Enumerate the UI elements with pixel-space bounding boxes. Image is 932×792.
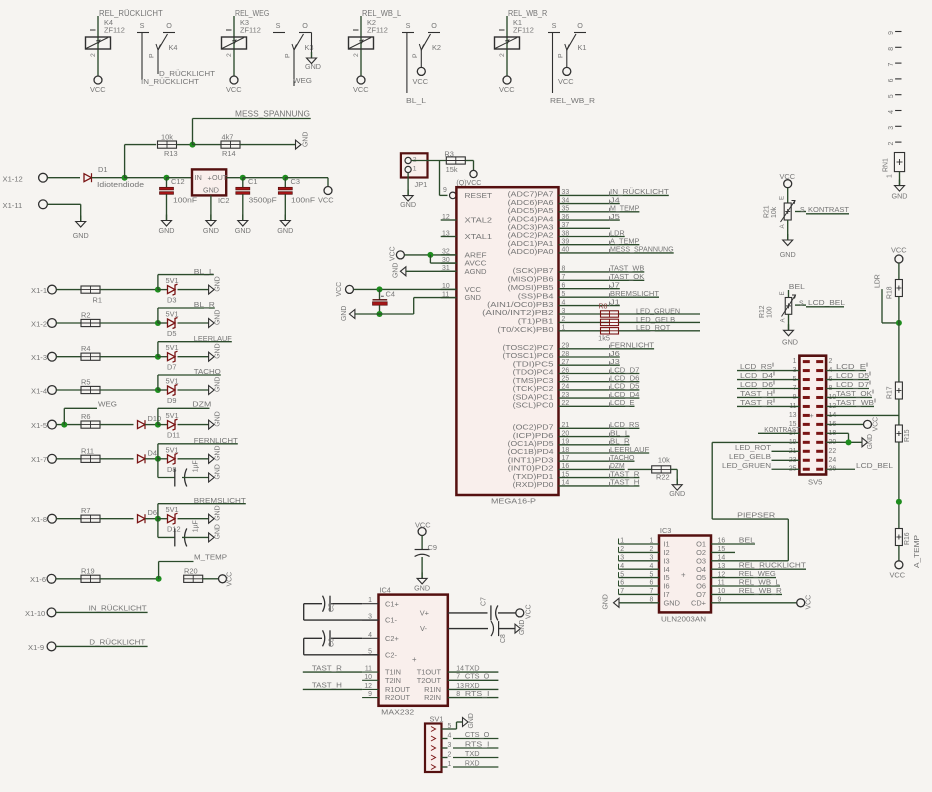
junction MESS tap [190, 142, 196, 148]
diode D1 Idiotendiode [84, 174, 92, 182]
svg-text:VCC: VCC [318, 196, 334, 205]
svg-text:GND: GND [203, 186, 219, 195]
svg-text:100nF: 100nF [291, 196, 316, 205]
ground C8 [515, 624, 521, 633]
svg-text:R4: R4 [81, 344, 90, 353]
svg-text:23: 23 [562, 392, 570, 399]
svg-text:X1-10: X1-10 [25, 609, 45, 618]
svg-text:R15: R15 [904, 429, 911, 442]
svg-text:GND: GND [203, 226, 219, 235]
uln2003 input wires [619, 543, 660, 545]
svg-text:O: O [577, 21, 583, 30]
svg-text:R17: R17 [887, 386, 894, 399]
svg-text:29: 29 [562, 343, 570, 350]
svg-text:1: 1 [650, 538, 654, 545]
svg-text:RTS_I: RTS_I [465, 689, 490, 698]
svg-text:BL_R: BL_R [194, 300, 216, 309]
supply VCC CD+ [797, 599, 805, 607]
svg-text:ZF112: ZF112 [240, 26, 261, 35]
svg-text:20: 20 [562, 430, 570, 437]
svg-text:GND: GND [277, 226, 293, 235]
relay K4 contact switch [137, 32, 149, 34]
ground AGND [400, 267, 406, 276]
net TAST_H to max232 [303, 688, 362, 690]
svg-text:D3: D3 [167, 296, 176, 305]
resistor R14 4k7 [193, 144, 222, 146]
svg-text:40: 40 [562, 247, 570, 254]
svg-text:X1-6: X1-6 [30, 575, 46, 584]
svg-text:3: 3 [888, 126, 895, 130]
svg-text:GND: GND [414, 584, 430, 593]
supply VCC pin10 [346, 285, 354, 293]
svg-text:2: 2 [90, 53, 97, 57]
svg-text:M_TEMP: M_TEMP [194, 553, 227, 562]
svg-text:100: 100 [767, 306, 774, 318]
relay K1 contact switch [548, 32, 560, 34]
svg-text:D12: D12 [167, 525, 181, 534]
svg-text:15k: 15k [446, 165, 458, 174]
capacitor C5 loop [331, 603, 362, 605]
svg-text:XTAL2: XTAL2 [465, 216, 493, 225]
svg-text:LCD_D4: LCD_D4 [740, 371, 773, 380]
svg-text:VCC: VCC [526, 604, 533, 619]
svg-text:LCD_BEL: LCD_BEL [808, 298, 845, 307]
svg-text:REL_WEG: REL_WEG [235, 9, 269, 18]
svg-text:10k: 10k [771, 206, 778, 218]
ground C3 [284, 194, 286, 220]
svg-text:2: 2 [888, 142, 895, 146]
svg-text:P: P [285, 53, 292, 58]
svg-text:ZF112: ZF112 [367, 26, 388, 35]
uln2003 gnd pin8 [619, 602, 659, 604]
svg-text:4: 4 [562, 299, 566, 306]
svg-text:K1: K1 [578, 43, 587, 52]
svg-text:7: 7 [562, 274, 566, 281]
svg-text:X1-11: X1-11 [3, 201, 23, 210]
svg-text:LCD_D7: LCD_D7 [836, 380, 869, 389]
svg-text:DZM: DZM [192, 400, 211, 409]
svg-text:O: O [166, 21, 172, 30]
svg-text:VCC: VCC [390, 246, 397, 261]
svg-text:(ADC0)PA0: (ADC0)PA0 [508, 247, 554, 256]
supply VCC C7 [516, 609, 524, 617]
svg-text:VCC: VCC [336, 282, 343, 297]
connector SV1 pins [431, 727, 436, 732]
svg-text:MEGA16-P: MEGA16-P [491, 497, 536, 506]
svg-text:9: 9 [443, 187, 447, 194]
svg-text:7: 7 [888, 63, 895, 67]
svg-text:GND: GND [780, 250, 796, 259]
svg-text:GND: GND [393, 263, 400, 278]
svg-text:18: 18 [562, 447, 570, 454]
svg-text:BREMSLICHT: BREMSLICHT [194, 496, 246, 505]
svg-text:S: S [799, 301, 804, 308]
jumper JP1 [401, 153, 428, 177]
svg-text:R8: R8 [599, 304, 608, 311]
svg-text:X1-9: X1-9 [28, 643, 44, 652]
svg-text:MESS_SPANNUNG: MESS_SPANNUNG [610, 245, 674, 254]
svg-text:TXD: TXD [465, 749, 480, 758]
wire R16 VCC [898, 546, 900, 561]
svg-text:SV5: SV5 [808, 478, 822, 487]
svg-text:R20: R20 [184, 566, 198, 575]
ground R22 [676, 479, 678, 485]
capacitor C8 [491, 621, 494, 636]
svg-text:V-: V- [420, 624, 428, 633]
svg-text:C6: C6 [329, 638, 336, 647]
svg-text:2: 2 [829, 358, 833, 365]
supply VCC at K2 pole [417, 67, 425, 75]
svg-text:+: + [810, 411, 814, 420]
svg-text:24: 24 [829, 457, 837, 464]
svg-text:X1-7: X1-7 [31, 455, 47, 464]
svg-text:GND: GND [465, 293, 482, 302]
svg-text:IC3: IC3 [660, 526, 672, 535]
wire R13 riser [124, 145, 126, 178]
svg-text:O: O [302, 21, 308, 30]
supply VCC at K1 pole [563, 67, 571, 75]
svg-text:GND: GND [215, 276, 222, 291]
ground X1-11 [80, 216, 82, 222]
relay K2 coil REL_WB_L [360, 16, 362, 76]
svg-text:D_RÜCKLICHT: D_RÜCKLICHT [89, 638, 145, 647]
junction C1 [240, 175, 246, 181]
svg-text:OUT: OUT [212, 173, 228, 182]
capacitor C9 [421, 536, 423, 550]
sv5 pin20 gnd [826, 441, 862, 443]
svg-text:X1-1: X1-1 [31, 286, 47, 295]
svg-text:7: 7 [456, 674, 460, 681]
svg-text:KONTRAST: KONTRAST [808, 205, 849, 214]
sv1 gnd [448, 728, 457, 730]
svg-text:P: P [149, 53, 156, 58]
ground C1 [242, 194, 244, 220]
ground C12 [166, 194, 168, 220]
svg-text:R19: R19 [81, 566, 95, 575]
svg-text:R6: R6 [81, 412, 90, 421]
ground at K3 contact [311, 33, 313, 59]
svg-text:21: 21 [562, 422, 570, 429]
svg-text:XTAL1: XTAL1 [465, 232, 493, 241]
svg-text:7: 7 [620, 588, 624, 595]
sv5 pin14 wire [826, 414, 899, 416]
sv1 net labels [453, 738, 498, 740]
svg-text:CTS_O: CTS_O [465, 672, 490, 681]
svg-text:SV1: SV1 [430, 715, 444, 724]
svg-text:S: S [276, 21, 281, 30]
svg-text:C2-: C2- [385, 650, 397, 659]
ground JP1 [407, 173, 409, 196]
svg-text:GND: GND [215, 343, 222, 358]
svg-text:12: 12 [442, 214, 450, 221]
wire V+ C7 [448, 612, 488, 614]
svg-text:RTS_I: RTS_I [465, 739, 490, 748]
resistor R13 10k [158, 141, 177, 148]
svg-text:13: 13 [789, 412, 797, 419]
svg-text:C9: C9 [428, 543, 437, 552]
svg-text:5: 5 [650, 571, 654, 578]
svg-text:GND: GND [400, 200, 416, 209]
svg-text:22: 22 [829, 448, 837, 455]
svg-text:19: 19 [562, 439, 570, 446]
junction C4 bottom [377, 311, 383, 317]
svg-text:REL_WB_R: REL_WB_R [508, 9, 548, 18]
ground R21 [787, 220, 789, 240]
resistor network RN1 [894, 153, 904, 172]
relay K4 coil REL_RUECKLICHT [97, 16, 99, 76]
capacitor C1 3500pF [242, 178, 244, 188]
svg-text:LCD_D5: LCD_D5 [836, 371, 869, 380]
svg-text:VCC: VCC [780, 172, 796, 181]
svg-text:TAST_R: TAST_R [740, 398, 774, 407]
svg-text:VCC: VCC [499, 85, 515, 94]
svg-text:16: 16 [562, 463, 570, 470]
svg-text:VCC: VCC [873, 417, 880, 432]
wire IC2 out [226, 177, 243, 179]
svg-text:P: P [412, 53, 419, 58]
svg-text:2: 2 [226, 53, 233, 57]
svg-text:6: 6 [620, 580, 624, 587]
svg-text:14: 14 [456, 666, 464, 673]
resistor R3 15k [446, 157, 465, 164]
svg-text:R2IN: R2IN [424, 693, 441, 702]
svg-text:5V1: 5V1 [166, 377, 179, 386]
svg-text:+: + [681, 571, 686, 580]
svg-text:R1: R1 [93, 296, 102, 305]
sv5 left net labels [737, 370, 799, 372]
svg-text:A_TEMP: A_TEMP [914, 535, 921, 568]
supply VCC R18 [895, 255, 903, 263]
svg-text:PIEPSER: PIEPSER [737, 510, 776, 519]
svg-text:(SCL)PC0: (SCL)PC0 [513, 401, 554, 410]
wire R12 S lcd_bel [795, 304, 806, 306]
svg-text:GND: GND [159, 226, 175, 235]
ground right of R14 [296, 140, 302, 149]
svg-text:5: 5 [562, 291, 566, 298]
svg-text:T2IN: T2IN [385, 676, 401, 685]
svg-text:D11: D11 [167, 431, 180, 440]
supply VCC rail [324, 187, 332, 195]
svg-text:GND: GND [215, 505, 222, 520]
svg-text:KONTRAST: KONTRAST [764, 425, 800, 434]
svg-text:2: 2 [620, 546, 624, 553]
wire AREF [405, 254, 457, 256]
svg-text:GND: GND [603, 594, 610, 609]
svg-text:TAST_H: TAST_H [740, 389, 773, 398]
svg-text:MAX232: MAX232 [381, 708, 414, 717]
relay K3 coil REL_WEG [233, 16, 235, 76]
svg-text:E: E [779, 291, 786, 295]
svg-text:GND: GND [303, 132, 310, 147]
svg-text:K4: K4 [169, 43, 178, 52]
svg-text:FERNLICHT: FERNLICHT [194, 436, 238, 445]
svg-text:5V1: 5V1 [166, 343, 179, 352]
ground C9 [421, 572, 423, 578]
svg-text:VCC: VCC [413, 77, 429, 86]
svg-text:VCC: VCC [558, 77, 574, 86]
svg-text:X1-3: X1-3 [31, 353, 47, 362]
svg-text:K2: K2 [432, 43, 441, 52]
resistor R22 10k [628, 468, 652, 470]
svg-text:2: 2 [448, 752, 452, 759]
svg-text:R14: R14 [222, 149, 236, 158]
wire R3 to VCC [465, 160, 473, 162]
svg-text:IC4: IC4 [379, 586, 391, 595]
svg-text:D1: D1 [98, 165, 107, 174]
svg-text:6: 6 [888, 78, 895, 82]
svg-text:5V1: 5V1 [166, 505, 179, 514]
svg-text:38: 38 [562, 230, 570, 237]
svg-text:TAST_H: TAST_H [312, 681, 342, 690]
svg-text:10k: 10k [658, 456, 670, 465]
svg-text:R12: R12 [759, 305, 766, 318]
svg-text:24: 24 [562, 384, 570, 391]
net PIEPSER wire [712, 441, 799, 443]
svg-text:6: 6 [650, 580, 654, 587]
svg-text:27: 27 [562, 359, 570, 366]
svg-text:REL_WB_R: REL_WB_R [550, 96, 596, 105]
svg-text:ZF112: ZF112 [513, 26, 534, 35]
svg-text:R3: R3 [444, 150, 453, 159]
svg-text:R21: R21 [764, 205, 771, 218]
junction A_TEMP [896, 499, 902, 505]
svg-text:C7: C7 [481, 597, 488, 606]
svg-text:35: 35 [562, 206, 570, 213]
svg-text:R18: R18 [887, 286, 894, 299]
svg-text:CTS_O: CTS_O [465, 730, 490, 739]
svg-text:8: 8 [888, 47, 895, 51]
relay K1 coil REL_WB_R [506, 16, 508, 76]
svg-text:GND: GND [215, 310, 222, 325]
svg-text:5: 5 [888, 94, 895, 98]
svg-text:4k7: 4k7 [222, 133, 234, 142]
svg-text:TAST_OK: TAST_OK [836, 389, 872, 398]
trimmer R12 100 [788, 290, 790, 298]
svg-text:8: 8 [562, 266, 566, 273]
svg-text:28: 28 [562, 351, 570, 358]
connector SV1 box [425, 724, 442, 773]
svg-text:2: 2 [499, 53, 506, 57]
capacitor C3 100nF [284, 178, 286, 188]
ic IC3 ULN2003AN box [659, 536, 711, 613]
svg-text:33: 33 [562, 189, 570, 196]
svg-text:GND: GND [215, 464, 222, 479]
svg-text:13: 13 [456, 683, 464, 690]
wire R15 junction [898, 442, 900, 528]
svg-text:2: 2 [650, 546, 654, 553]
svg-text:S: S [140, 21, 145, 30]
svg-text:5V1: 5V1 [166, 445, 179, 454]
svg-text:V+: V+ [420, 609, 429, 618]
svg-text:WEG: WEG [98, 400, 117, 409]
svg-text:1: 1 [413, 166, 417, 173]
svg-text:X1-4: X1-4 [31, 386, 47, 395]
supply VCC at R3 [470, 170, 477, 177]
svg-text:X1-2: X1-2 [31, 319, 47, 328]
wire R21 S kontrast [795, 211, 806, 213]
svg-text:8: 8 [456, 691, 460, 698]
svg-text:R11: R11 [81, 446, 94, 455]
svg-text:GND: GND [892, 192, 908, 201]
svg-text:T2OUT: T2OUT [417, 676, 442, 685]
svg-text:1: 1 [793, 358, 797, 365]
svg-text:VCC: VCC [806, 595, 813, 610]
svg-text:(RXD)PD0: (RXD)PD0 [513, 480, 554, 489]
supply VCC AREF [396, 251, 404, 259]
svg-text:GND: GND [305, 62, 321, 71]
supply VCC R21 [784, 180, 792, 188]
svg-text:REL_WB_R: REL_WB_R [739, 586, 783, 595]
sv5 right net labels [826, 370, 866, 372]
svg-text:GND: GND [215, 524, 222, 539]
rn1 pins 2-9 [895, 141, 901, 143]
svg-text:1: 1 [620, 538, 624, 545]
wire JP1 to R3 [412, 160, 447, 162]
svg-text:X1-5: X1-5 [31, 421, 47, 430]
svg-text:LCD_BEL: LCD_BEL [856, 461, 893, 470]
voltage regulator IC2 [192, 169, 226, 195]
svg-text:10k: 10k [161, 133, 173, 142]
wire R13 to junction [177, 144, 193, 146]
svg-text:E: E [779, 196, 786, 200]
svg-text:REL_RÜCKLICHT: REL_RÜCKLICHT [99, 9, 163, 18]
junction C4 top [377, 286, 383, 292]
relay K3 contact switch [273, 32, 285, 34]
svg-text:BL_L: BL_L [194, 267, 214, 276]
svg-text:D6: D6 [148, 508, 157, 517]
supply VCC C9 [418, 528, 426, 536]
svg-text:14: 14 [562, 480, 570, 487]
wire R17 R15 [898, 399, 900, 425]
svg-text:IN_RÜCKLICHT: IN_RÜCKLICHT [89, 604, 147, 613]
svg-text:3500pF: 3500pF [249, 196, 278, 205]
svg-text:D7: D7 [167, 363, 176, 372]
wire GND pin11 [414, 297, 457, 299]
svg-text:VCC: VCC [890, 571, 906, 580]
svg-text:R16: R16 [904, 532, 911, 545]
ground R12 [788, 314, 790, 330]
svg-text:GND: GND [215, 411, 222, 426]
svg-text:4: 4 [888, 110, 895, 114]
svg-text:IN: IN [195, 173, 202, 182]
svg-text:LED_ROT: LED_ROT [636, 323, 671, 332]
svg-text:ZF112: ZF112 [104, 26, 125, 35]
sv5 pin16 vcc [826, 423, 863, 425]
svg-text:GND: GND [215, 445, 222, 460]
svg-text:GND: GND [782, 338, 798, 347]
svg-text:GND: GND [669, 489, 685, 498]
svg-text:J5: J5 [610, 212, 620, 221]
net TAST_R to max232 [303, 671, 362, 673]
svg-text:36: 36 [562, 214, 570, 221]
svg-text:VCC: VCC [353, 85, 369, 94]
junction C12 [164, 175, 170, 181]
capacitor C4 [379, 289, 381, 299]
resistor R15 [895, 425, 902, 442]
svg-text:GND: GND [73, 231, 89, 240]
svg-text:VCC: VCC [891, 246, 907, 255]
svg-text:5V1: 5V1 [166, 310, 179, 319]
svg-text:D10: D10 [148, 414, 162, 423]
svg-text:4: 4 [448, 733, 452, 740]
ic IC4 MAX232 box [379, 595, 448, 706]
wire C1 to C3 [243, 177, 285, 179]
svg-text:22: 22 [562, 400, 570, 407]
junction C3 [282, 175, 288, 181]
svg-text:5V1: 5V1 [166, 411, 179, 420]
svg-text:CD+: CD+ [691, 598, 706, 607]
svg-text:D9: D9 [167, 396, 176, 405]
